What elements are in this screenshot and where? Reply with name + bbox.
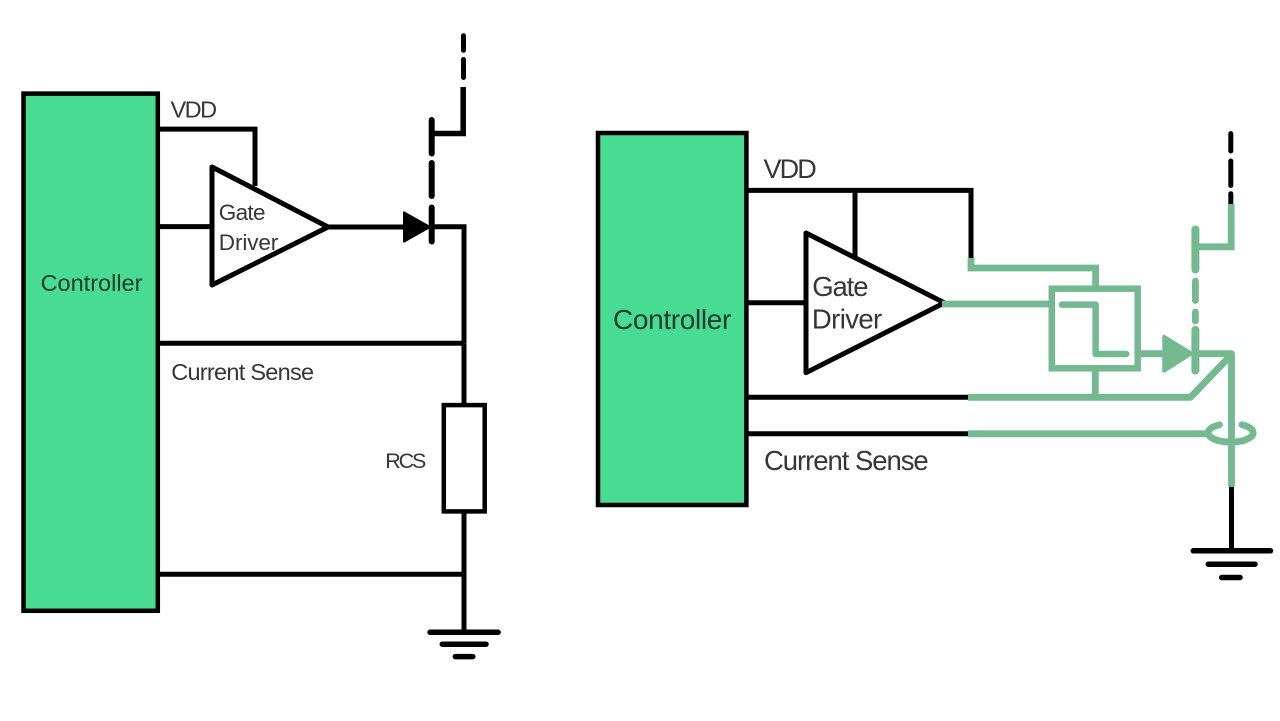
ground (right): [1193, 548, 1270, 554]
wire resistor to ground (left): [462, 511, 467, 632]
svg-text:Driver: Driver: [219, 230, 279, 255]
transistor Q1 channel dash (left): [429, 163, 435, 196]
green interconnect VDD corner (right): [971, 258, 1096, 289]
svg-text:Controller: Controller: [41, 270, 143, 296]
diode arrow green (right): [1164, 337, 1192, 372]
wire gate driver input (left): [158, 224, 213, 229]
wire gate driver input (right): [747, 300, 808, 305]
drain dashed stub black (right): [1228, 134, 1233, 205]
svg-text:VDD: VDD: [171, 97, 217, 123]
svg-text:Current Sense: Current Sense: [171, 359, 314, 385]
svg-text:Controller: Controller: [613, 304, 731, 335]
svg-text:RCS: RCS: [385, 449, 426, 473]
controller box (left): [24, 94, 158, 611]
transistor Q2 gate bar green: [1191, 330, 1199, 371]
transistor Q1 gate bar (left): [429, 208, 435, 242]
wire gate driver output (left): [326, 225, 428, 230]
svg-text:Driver: Driver: [812, 303, 882, 334]
wire A green with source diagonal (right): [968, 355, 1232, 398]
wire B green (right): [968, 430, 1207, 437]
svg-text:Gate: Gate: [812, 271, 868, 302]
op-amp gate driver U2 (right): [806, 233, 944, 373]
resistor RCS: [444, 405, 485, 511]
ground (left): [430, 630, 498, 636]
wire source down (left): [434, 227, 464, 343]
wire box to transistor gate (right): [1138, 350, 1164, 357]
op-amp gate driver U1 (left): [212, 167, 328, 285]
sense-FET inner step: [1062, 305, 1126, 354]
transistor Q2 channel dashes green: [1192, 281, 1199, 321]
transistor Q2 top bar green: [1191, 230, 1199, 270]
wire source down green (right): [1198, 354, 1232, 487]
wire to resistor (left): [462, 343, 467, 406]
transistor Q2 drain step green: [1195, 204, 1231, 247]
wire ground lead black (right): [1229, 487, 1234, 551]
diode arrow into gate (left): [404, 212, 430, 241]
wire VDD branch to driver (right): [853, 190, 858, 259]
wire A black (right): [747, 395, 971, 400]
wire bottom return (left): [158, 572, 464, 577]
wire VDD (right): [747, 188, 974, 262]
wire B black (right): [747, 431, 971, 436]
transistor Q1 drain step (left): [432, 87, 464, 134]
wire current sense (left): [158, 341, 464, 346]
svg-text:VDD: VDD: [764, 154, 817, 184]
wire VDD (left): [158, 129, 255, 186]
controller box (right): [598, 133, 746, 505]
svg-text:Current Sense: Current Sense: [764, 445, 928, 476]
transistor Q1 drain dashed stub (left): [461, 36, 466, 78]
sense-FET box (right): [1052, 289, 1138, 369]
current sense loop (right): [1208, 425, 1253, 442]
svg-text:Gate: Gate: [219, 200, 265, 225]
wire gate driver output green (right): [942, 301, 1049, 308]
wire box bottom to wire A (right): [1092, 368, 1099, 397]
transistor Q1 top bar (left): [429, 120, 435, 154]
